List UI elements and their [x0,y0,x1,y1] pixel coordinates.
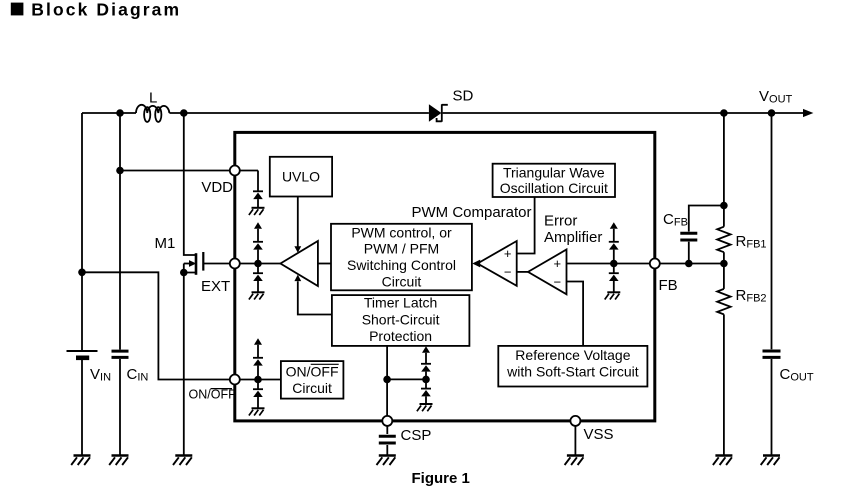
wire error amp plus to FB [567,263,650,265]
ground CSP [377,456,396,466]
node CFB lower junction [685,260,693,268]
op-amp PWM comparator [478,241,517,286]
svg-text:CIN: CIN [127,366,149,384]
ground ESD CSP [417,404,433,411]
block ONOFF Circuit [281,361,344,399]
svg-text:CFB: CFB [663,211,688,229]
node top rail M1 junction [180,109,188,117]
svg-text:PWM Comparator: PWM Comparator [412,204,532,221]
svg-text:Switching Control: Switching Control [347,257,456,273]
svg-text:with Soft-Start Circuit: with Soft-Start Circuit [506,364,639,380]
battery VIN [67,351,98,358]
svg-text:VSS: VSS [584,426,614,443]
wire VSS stem [574,426,576,456]
wire error amp minus to reference [567,282,584,346]
ground ESD ONOFF [249,408,265,415]
ground VIN [71,456,90,466]
svg-text:−: − [554,274,562,289]
diode SD [429,104,448,121]
pin EXT [230,259,240,269]
diode ESD EXT chain [253,222,263,292]
node CSP ESD junction [422,376,430,384]
svg-text:Circuit: Circuit [382,274,422,290]
diode ESD FB chain [609,222,619,292]
svg-text:VOUT: VOUT [759,88,793,106]
diode ESD VDD chain [253,171,263,208]
node top rail CIN junction [116,109,124,117]
node VIN route junction [78,269,86,277]
svg-text:RFB1: RFB1 [736,233,767,251]
wire VDD internal [240,170,258,172]
svg-text:PWM control, or: PWM control, or [351,224,452,240]
capacitor CFB [680,206,724,264]
wire ONOFF internal [240,379,281,381]
capacitor COUT [763,113,781,456]
node VOUT arrowhead [803,109,813,117]
ground COUT [761,456,780,466]
wire VDD tap [120,170,230,172]
wire CSP stem [386,426,388,456]
node CFB upper junction [720,202,728,210]
wire UVLO to driver arrow [294,197,301,253]
wire top rail [82,112,806,114]
pin ONOFF [230,375,240,385]
wire comparator output arrow [472,260,480,268]
node FB resistor junction [720,260,728,268]
node FB ESD junction [610,260,618,268]
ground M1 source [173,456,192,466]
wire comparator plus to oscillator [517,197,535,254]
label Error Amplifier [544,212,602,246]
wire M1 gate [203,263,230,265]
svg-text:VIN: VIN [90,366,111,384]
wire FB external [660,263,724,265]
pin VDD [230,166,240,176]
node top rail RFB junction [720,109,728,117]
ground ESD FB [605,292,621,299]
svg-text:SD: SD [453,88,474,105]
node VDD tap junction [116,167,124,175]
wire VIN to ONOFF route [82,272,230,379]
svg-text:Triangular Wave: Triangular Wave [503,165,605,181]
node EXT junction [254,260,262,268]
ground ESD EXT [249,292,265,299]
svg-text:Circuit: Circuit [292,380,332,396]
svg-text:Amplifier: Amplifier [544,229,602,246]
wire timer node to ESD chain [387,378,426,380]
inductor L [136,105,169,122]
block Reference Voltage [498,346,647,387]
node top rail COUT junction [768,109,776,117]
capacitor CSP [379,436,396,443]
svg-text:Oscillation Circuit: Oscillation Circuit [500,180,608,196]
wire driver output [318,263,331,265]
pin CSP [382,416,392,426]
svg-text:ON/OFF: ON/OFF [189,387,237,401]
svg-text:Block Diagram: Block Diagram [31,0,181,19]
svg-text:L: L [149,90,157,107]
svg-text:M1: M1 [155,235,176,252]
svg-text:COUT: COUT [780,366,814,384]
svg-text:Protection: Protection [369,328,432,344]
svg-text:Timer Latch: Timer Latch [364,295,437,311]
op-amp error amplifier [528,250,567,295]
resistor RFB2 [717,264,730,456]
svg-text:ON/OFF: ON/OFF [286,363,339,379]
ground CIN [109,456,128,466]
pin VSS [570,416,580,426]
svg-text:+: + [504,246,512,261]
svg-text:RFB2: RFB2 [736,287,767,305]
diode ESD ONOFF chain [253,338,263,408]
svg-text:−: − [504,265,512,280]
capacitor CIN [112,351,129,357]
block Triangular Wave Oscillation Circuit [493,164,615,197]
block Timer Latch [332,295,470,346]
ground RFB2 [713,456,733,466]
wire timer latch to driver arrow [294,275,332,315]
wire timer latch to CSP [386,346,388,416]
IC package box [235,132,655,421]
title Block Diagram [11,0,181,19]
wire VIN vertical [81,113,83,456]
svg-text:EXT: EXT [201,278,230,295]
svg-text:FB: FB [659,277,678,294]
node ONOFF junction [254,376,262,384]
resistor RFB1 [717,113,730,264]
svg-text:Reference Voltage: Reference Voltage [515,347,630,363]
svg-text:Short-Circuit: Short-Circuit [362,311,440,327]
wire comparator minus to error amp [517,271,528,273]
ground VSS [565,456,584,466]
svg-text:CSP: CSP [401,427,432,444]
svg-text:Error: Error [544,212,577,229]
wire CIN vertical [119,113,121,456]
svg-text:PWM / PFM: PWM / PFM [364,241,439,257]
node M1 source junction [180,269,188,277]
ground ESD VDD [249,208,265,215]
svg-text:+: + [554,256,562,271]
block PWM control [331,224,472,290]
svg-text:Figure 1: Figure 1 [412,470,470,487]
pin FB [650,259,660,269]
diode ESD CSP chain [421,346,431,404]
wire EXT internal [240,263,281,265]
svg-text:VDD: VDD [201,179,233,196]
transistor M1 [184,113,204,456]
op-amp driver buffer [280,241,318,286]
block UVLO [270,157,332,197]
node timer CSP junction [383,376,391,384]
svg-text:UVLO: UVLO [282,169,320,185]
